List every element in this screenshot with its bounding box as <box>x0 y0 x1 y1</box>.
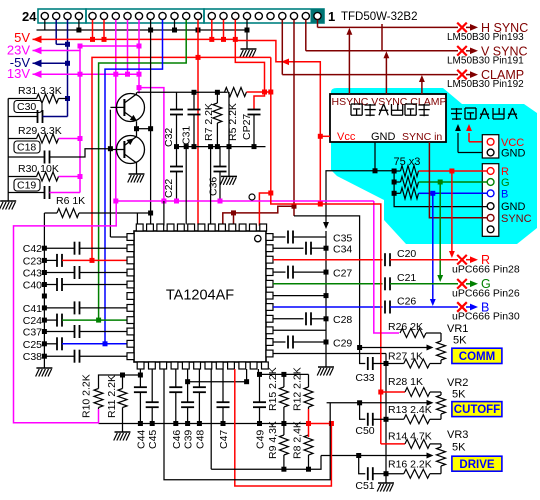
bracket wire B2: IC pin to VR2 wiper <box>164 369 330 480</box>
svg-text:CUTOFF: CUTOFF <box>454 404 500 416</box>
svg-text:C20: C20 <box>397 248 416 260</box>
svg-text:uPC666 Pin30: uPC666 Pin30 <box>452 311 520 323</box>
svg-text:R16 2.2K: R16 2.2K <box>388 459 432 471</box>
red video input R <box>92 20 198 261</box>
23V drop to R29/R30 <box>79 51 81 193</box>
IC U1 TA1204AF body <box>134 231 266 362</box>
stub wire to V SYNC line <box>381 24 383 51</box>
svg-text:R11 2.2K: R11 2.2K <box>106 375 118 418</box>
red tap between R12/R8 <box>308 409 310 437</box>
link wire <box>188 381 247 383</box>
svg-text:C22: C22 <box>163 179 175 198</box>
svg-text:uPC666 Pin26: uPC666 Pin26 <box>452 288 520 300</box>
svg-text:C38: C38 <box>23 351 42 363</box>
DRIVE box <box>452 456 502 471</box>
right cap bank bus <box>325 231 327 367</box>
magenta wrap wire to R26 <box>374 201 399 333</box>
svg-text:R14 4.7K: R14 4.7K <box>388 431 432 443</box>
svg-text:R28 1K: R28 1K <box>388 376 423 388</box>
ground <box>241 48 257 50</box>
svg-text:LM50B30 Pin191: LM50B30 Pin191 <box>447 56 524 67</box>
svg-text:HSYNC VSYNC CLAMP: HSYNC VSYNC CLAMP <box>332 96 447 108</box>
bracket wire B1: IC pin to R9/R8 bottoms and VR3 wiper <box>211 456 321 470</box>
magenta wire to R10 bottom <box>14 201 117 423</box>
capacitor C27 <box>273 271 286 273</box>
svg-text:R7 2.2K: R7 2.2K <box>203 103 215 141</box>
wire: black bus under connector <box>37 29 248 31</box>
svg-text:GND: GND <box>501 201 526 213</box>
COMM box <box>452 348 502 363</box>
vertical to ground <box>385 354 387 484</box>
CLAMP line <box>281 20 283 75</box>
svg-text:C26: C26 <box>397 296 416 308</box>
capacitor C50 <box>360 403 366 420</box>
base feed wire <box>109 110 111 237</box>
svg-text:R9 4,3K: R9 4,3K <box>267 421 279 459</box>
svg-text:TA1204AF: TA1204AF <box>166 288 234 304</box>
transistor Q1 <box>117 94 145 122</box>
ground <box>318 366 334 368</box>
svg-text:75 x3: 75 x3 <box>394 156 421 168</box>
svg-text:C37: C37 <box>23 327 42 339</box>
capacitor C51 <box>359 456 366 474</box>
svg-text:C28: C28 <box>333 314 352 326</box>
svg-text:GND: GND <box>371 131 396 143</box>
left bus to ground <box>7 99 9 202</box>
ground stub mid <box>228 147 230 177</box>
red drop to IC pin <box>259 193 270 226</box>
capacitor C44 <box>139 369 141 387</box>
H SYNC line <box>317 20 319 28</box>
svg-text:C27: C27 <box>333 268 352 280</box>
svg-text:Vcc: Vcc <box>337 131 356 143</box>
capacitor C29 <box>273 341 286 343</box>
CUTOFF box <box>452 402 502 417</box>
black net pin10 to transistor/R6/IC <box>150 30 152 226</box>
svg-text:R10 2.2K: R10 2.2K <box>81 374 93 418</box>
ground <box>129 173 145 175</box>
svg-text:C19: C19 <box>17 180 36 192</box>
SYNC in wire to connector <box>429 142 487 218</box>
magenta row above IC <box>116 200 374 202</box>
cyan highlight region <box>331 88 537 244</box>
transistor Q2 <box>117 136 145 164</box>
resistor R5 2.2K <box>225 88 247 97</box>
svg-text:1: 1 <box>328 9 335 24</box>
capacitor C35 <box>273 236 286 238</box>
svg-text:5K: 5K <box>452 442 466 454</box>
red video straight down to IC pin <box>197 57 199 224</box>
svg-text:C48: C48 <box>194 430 206 449</box>
capacitor C45 <box>151 369 153 402</box>
IC pins right <box>266 234 273 241</box>
5V feed to R5 <box>235 39 264 92</box>
capacitor C20 / R out <box>273 259 383 261</box>
svg-text:C21: C21 <box>397 272 416 284</box>
svg-text:VR3: VR3 <box>447 429 468 441</box>
blue video input B <box>105 20 163 344</box>
svg-text:C45: C45 <box>147 430 159 449</box>
電源ピンへ label <box>451 108 462 110</box>
capacitor C39 <box>187 369 189 402</box>
green video input G <box>99 20 187 321</box>
left capacitor bank bus <box>43 213 45 368</box>
svg-text:C43: C43 <box>23 268 42 280</box>
capacitor C28 <box>273 318 304 320</box>
wire: -5V net from pins <box>55 20 57 45</box>
red return wire <box>235 369 332 486</box>
svg-text:R29 3.3K: R29 3.3K <box>18 125 62 137</box>
svg-text:C40: C40 <box>23 280 42 292</box>
wire row <box>273 329 326 331</box>
svg-text:C42: C42 <box>23 243 42 255</box>
svg-text:SYNC: SYNC <box>501 213 532 225</box>
svg-text:VR2: VR2 <box>447 377 468 389</box>
capacitor C32 <box>176 92 178 109</box>
svg-text:5K: 5K <box>453 335 467 347</box>
capacitor C49 <box>258 369 259 374</box>
75 ohm bank ground bus <box>394 171 487 207</box>
svg-text:R6 1K: R6 1K <box>56 195 85 207</box>
5V arrow marker <box>281 58 289 65</box>
ground <box>378 482 394 484</box>
75 ohm resistor bank <box>392 169 397 174</box>
svg-text:VR1: VR1 <box>447 323 468 335</box>
svg-text:C51: C51 <box>355 480 374 492</box>
svg-text:C24: C24 <box>23 315 42 327</box>
svg-text:C44: C44 <box>135 430 147 449</box>
svg-text:LM50B30 Pin192: LM50B30 Pin192 <box>447 79 524 90</box>
IC pins bottom <box>137 362 144 369</box>
wire to VR column <box>273 353 386 355</box>
junction circle <box>249 194 255 200</box>
13V long feed down left of IC <box>115 20 117 201</box>
wire to IC top pin <box>163 201 165 226</box>
svg-text:C29: C29 <box>333 338 352 350</box>
svg-text:R5 2.2K: R5 2.2K <box>227 103 239 141</box>
svg-text:13V: 13V <box>7 66 30 81</box>
svg-text:C49: C49 <box>255 430 267 449</box>
svg-text:R15 2.2K: R15 2.2K <box>267 367 279 411</box>
svg-text:C30: C30 <box>17 101 36 113</box>
svg-text:TFD50W-32B2: TFD50W-32B2 <box>341 11 417 23</box>
svg-text:R13 2.4K: R13 2.4K <box>388 404 432 416</box>
capacitor C22 <box>176 147 178 167</box>
capacitor C33 <box>360 348 366 364</box>
mid junction row <box>177 146 266 148</box>
svg-text:C34: C34 <box>333 244 352 256</box>
capacitor C19 <box>14 179 40 191</box>
svg-text:24: 24 <box>22 9 37 24</box>
VCC/GND connector <box>482 135 499 158</box>
svg-text:SYNC in: SYNC in <box>402 131 442 143</box>
svg-text:DRIVE: DRIVE <box>459 459 494 471</box>
capacitor C36 <box>219 147 221 167</box>
magenta feed to transistor area <box>139 20 164 201</box>
arrows into sync box <box>348 30 350 94</box>
svg-text:C23: C23 <box>23 255 42 267</box>
IC pins top <box>136 224 143 231</box>
svg-text:C31: C31 <box>181 126 193 145</box>
capacitor C48 <box>198 369 200 387</box>
svg-text:R12 2.2K: R12 2.2K <box>292 367 304 411</box>
bottom bus <box>99 423 311 425</box>
magenta collector feed <box>138 88 140 94</box>
ground <box>0 200 16 202</box>
svg-text:C46: C46 <box>171 430 183 449</box>
5V feed jog to sync box Vcc <box>235 39 320 204</box>
ground <box>115 431 131 433</box>
connector J1 TFD50W-32B2 group boxes <box>38 9 86 23</box>
svg-text:C18: C18 <box>17 142 36 154</box>
svg-text:uPC666 Pin28: uPC666 Pin28 <box>452 264 520 276</box>
resistor R7 2.2K <box>216 92 218 103</box>
svg-text:B: B <box>501 188 508 200</box>
IC pins left <box>127 234 134 241</box>
capacitor C46 <box>175 369 177 387</box>
svg-text:C33: C33 <box>355 372 374 384</box>
svg-text:R8 2,4K: R8 2,4K <box>292 421 304 459</box>
V SYNC line <box>305 20 307 51</box>
capacitor C18 <box>14 141 40 153</box>
collector rail <box>137 91 227 93</box>
capacitor C21 / G out <box>273 283 383 285</box>
svg-text:LM50B30 Pin193: LM50B30 Pin193 <box>447 32 524 43</box>
capacitor C34 <box>273 247 304 249</box>
capacitor C26 / B out <box>273 306 383 308</box>
connector pins <box>41 12 48 19</box>
ground <box>221 175 237 177</box>
GND wire from sync box <box>374 142 376 171</box>
svg-text:C39: C39 <box>183 430 195 449</box>
RGB/SYNC connector <box>482 164 499 237</box>
svg-text:C50: C50 <box>355 425 374 437</box>
R15/R12 tops <box>260 373 309 375</box>
power stub arrows <box>457 133 459 153</box>
svg-text:R31 3.3K: R31 3.3K <box>18 85 62 97</box>
csync to IC pins (maroon) <box>293 20 295 216</box>
ground <box>36 367 52 369</box>
svg-text:5K: 5K <box>452 389 466 401</box>
capacitor CP27 <box>254 92 265 110</box>
svg-text:C32: C32 <box>163 128 175 147</box>
capacitor C31 <box>193 92 195 109</box>
svg-text:GND: GND <box>501 148 526 160</box>
red wrap wire to R28/R14 <box>271 57 381 444</box>
Vcc wire from sync box <box>320 135 330 137</box>
wire row <box>273 295 326 297</box>
svg-text:C36: C36 <box>208 177 220 196</box>
csync tail to VR1 wiper line <box>294 216 360 348</box>
capacitor C47 <box>222 369 224 402</box>
ground stub below connector <box>246 30 248 49</box>
svg-text:C25: C25 <box>23 339 42 351</box>
svg-text:C41: C41 <box>23 303 42 315</box>
IC pin1 mark <box>255 235 261 241</box>
pin wire through bus <box>210 369 212 469</box>
connector pin 1 marker <box>311 9 325 23</box>
svg-text:G: G <box>501 177 510 189</box>
RGB drops to uPC666 rows <box>451 171 453 252</box>
sync separator box 同期分離回路 <box>330 94 446 142</box>
svg-text:C47: C47 <box>218 430 230 449</box>
svg-text:COMM: COMM <box>459 351 495 363</box>
capacitor C30 <box>14 101 42 113</box>
svg-text:CP27: CP27 <box>241 114 253 140</box>
